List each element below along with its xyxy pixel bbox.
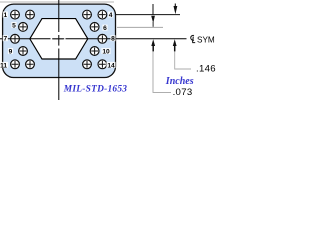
pin number 11 [0,62,8,69]
svg-text:SYM: SYM [197,36,215,45]
svg-text:7: 7 [3,36,7,43]
pad 3 [83,10,92,19]
svg-text:14: 14 [107,62,115,69]
dimension up arrow right [173,39,177,51]
svg-text:5: 5 [12,22,16,29]
dimension down arrow left (to .073 row line) [151,4,155,27]
pad 1 [11,10,20,19]
pad 11 [11,60,20,69]
pad 6 [90,23,99,32]
pad 9 [19,47,28,56]
pad 12 [26,60,35,69]
pad 7 [11,34,20,43]
dimension up arrow left [151,39,155,51]
faint top border line [0,1,114,3]
pin number 14 [106,62,115,69]
pin number 4 [108,12,113,19]
leader line to .073 label [153,52,171,93]
leader line to .146 label [175,52,191,70]
svg-text:6: 6 [103,25,107,32]
centerline symbol [191,35,195,42]
pin number 8 [110,35,115,42]
svg-text:9: 9 [9,48,13,55]
pad 4 [98,10,107,19]
svg-text:8: 8 [111,36,115,43]
pad 5 [19,23,28,32]
pin number 6 [102,25,107,32]
pin number 7 [3,35,8,42]
hexagon seating plane outline [30,19,88,59]
vertical centerline [58,0,60,100]
pin number 1 [3,12,8,19]
svg-text:4: 4 [109,12,113,19]
svg-text:10: 10 [102,48,110,55]
svg-text:11: 11 [0,62,7,69]
svg-text:1: 1 [3,12,7,19]
svg-text:MIL-STD-1653: MIL-STD-1653 [63,84,127,94]
svg-text:.073: .073 [173,87,193,98]
package body (flatpack outline) [3,4,116,77]
pad 8 [98,34,107,43]
dimension down arrow right (to top row line) [174,4,178,15]
svg-text:.146: .146 [196,63,216,74]
horizontal centerline [0,38,187,40]
second row extension line (gray) [117,26,163,28]
pin number 10 [101,48,110,55]
top row extension line [116,14,181,16]
pad 14 [98,60,107,69]
pin number 9 [8,48,13,55]
pad 13 [83,60,92,69]
svg-text:Inches: Inches [165,76,194,87]
pad 2 [26,10,35,19]
pad 10 [90,47,99,56]
pin number 5 [11,22,16,29]
center crosshair of hexagon [53,38,64,40]
